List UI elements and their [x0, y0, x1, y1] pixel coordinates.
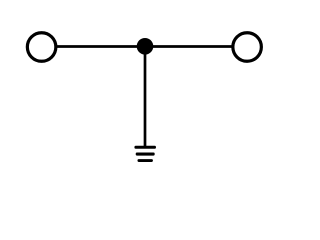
terminal T1 (left open-circle connection point) — [27, 33, 56, 62]
junction dot (node) — [137, 38, 154, 55]
wire: vertical segment from junction down to ground — [144, 47, 147, 148]
wire: horizontal segment from left terminal to right terminal through junction — [55, 45, 233, 48]
ground — [134, 146, 156, 162]
terminal T2 (right open-circle connection point) — [233, 33, 262, 62]
